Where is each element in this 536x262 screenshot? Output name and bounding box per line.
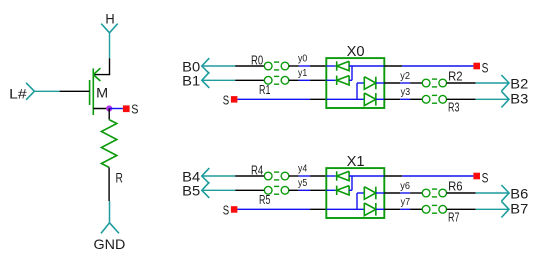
X1 diode 2 bbox=[337, 186, 349, 195]
subcircuit X1 box bbox=[326, 168, 384, 218]
node H label bbox=[105, 11, 114, 27]
wire S to resistor bbox=[108, 109, 110, 120]
net y2 segment bbox=[384, 71, 410, 83]
label R3 bbox=[448, 100, 460, 114]
X1 diode 3 bbox=[364, 187, 376, 200]
port B1 bbox=[182, 72, 209, 88]
label R bbox=[116, 170, 123, 186]
svg-text:X0: X0 bbox=[347, 44, 365, 60]
wire B0 to R0 bbox=[202, 65, 265, 67]
svg-text:R4: R4 bbox=[251, 164, 263, 178]
subcircuit X0 box bbox=[326, 58, 384, 108]
svg-text:R3: R3 bbox=[448, 100, 460, 114]
X0 inner wire row y1 bbox=[326, 79, 336, 81]
wire source bbox=[93, 108, 109, 110]
svg-text:H: H bbox=[105, 11, 114, 27]
svg-text:y4: y4 bbox=[298, 164, 308, 175]
wire net y5 to X pin bbox=[310, 189, 326, 191]
port B2 bbox=[501, 75, 528, 92]
svg-text:S: S bbox=[131, 102, 138, 117]
label R2 bbox=[448, 69, 463, 83]
net y3 segment bbox=[384, 87, 410, 99]
wire gate bbox=[34, 90, 89, 92]
net y7 segment bbox=[384, 197, 410, 209]
label R7 bbox=[448, 210, 460, 224]
wire X0 to pin S right bbox=[384, 65, 473, 67]
svg-text:B5: B5 bbox=[182, 182, 200, 198]
resistor R6 bbox=[422, 189, 446, 197]
port L# bbox=[9, 83, 34, 102]
wire R0 to net y0 bbox=[289, 65, 299, 67]
X1 inner wire row y4 bbox=[326, 175, 336, 177]
svg-text:y6: y6 bbox=[400, 181, 410, 192]
svg-text:R2: R2 bbox=[448, 69, 463, 83]
resistor R4 bbox=[264, 172, 289, 180]
wire net y7 to R7 bbox=[410, 208, 422, 210]
wire node S bbox=[109, 108, 123, 110]
svg-text:B1: B1 bbox=[182, 72, 200, 88]
net y1 segment bbox=[298, 68, 310, 81]
svg-text:B3: B3 bbox=[510, 91, 528, 107]
label X1 bbox=[347, 154, 365, 170]
svg-text:R0: R0 bbox=[251, 54, 263, 68]
wire B5 to R5 bbox=[202, 189, 265, 191]
junction node S bbox=[107, 106, 112, 111]
port B6 bbox=[501, 185, 528, 202]
X0 inner wire diode 4 to y3 bbox=[376, 98, 384, 100]
svg-text:R: R bbox=[116, 170, 123, 186]
X0 diode 1 bbox=[337, 61, 349, 70]
svg-text:y1: y1 bbox=[298, 68, 308, 79]
X0 diode 2 bbox=[337, 76, 349, 85]
svg-text:R1: R1 bbox=[259, 83, 270, 97]
X1 inner wire row y5 bbox=[326, 189, 336, 191]
resistor R1 bbox=[264, 76, 289, 84]
svg-text:S: S bbox=[482, 59, 489, 75]
label M bbox=[96, 84, 108, 100]
wire B4 to R4 bbox=[202, 175, 265, 177]
wire R2 to B2 bbox=[447, 82, 509, 84]
label R0 bbox=[251, 54, 263, 68]
svg-text:S: S bbox=[223, 93, 230, 108]
X1 inner wire diode bases to S out bbox=[349, 176, 384, 190]
pin S left of X1 bbox=[223, 203, 238, 218]
wire H to drain bbox=[93, 33, 110, 75]
resistor R2 bbox=[422, 79, 446, 87]
label R6 bbox=[448, 179, 463, 193]
resistor R bbox=[101, 120, 116, 168]
X0 inner wire S row bbox=[326, 83, 364, 99]
port B0 bbox=[182, 58, 209, 74]
svg-text:L#: L# bbox=[9, 86, 27, 102]
X0 inner wire diode 3 to y2 bbox=[376, 82, 384, 84]
pin S left circuit bbox=[123, 102, 139, 117]
port B4 bbox=[182, 168, 209, 184]
svg-text:R7: R7 bbox=[448, 210, 460, 224]
wire R1 to net y1 bbox=[289, 79, 299, 81]
port B3 bbox=[501, 91, 528, 108]
wire net y0 to X pin bbox=[310, 65, 326, 67]
wire R6 to B6 bbox=[447, 192, 509, 194]
svg-text:y0: y0 bbox=[298, 54, 308, 65]
net y6 segment bbox=[384, 181, 410, 193]
resistor R0 bbox=[264, 62, 289, 70]
svg-text:S: S bbox=[223, 203, 230, 218]
port B5 bbox=[182, 182, 209, 198]
pin S right of X1 bbox=[473, 169, 488, 185]
label X0 bbox=[347, 44, 365, 60]
wire net y6 to R6 bbox=[410, 192, 422, 194]
svg-text:B6: B6 bbox=[510, 186, 528, 202]
wire R7 to B7 bbox=[447, 208, 509, 210]
wire net y4 to X pin bbox=[310, 175, 326, 177]
svg-text:R5: R5 bbox=[259, 193, 270, 207]
resistor R7 bbox=[422, 205, 446, 213]
svg-text:y3: y3 bbox=[401, 87, 411, 98]
wire net y2 to R2 bbox=[410, 82, 422, 84]
transistor M bbox=[90, 68, 101, 115]
svg-text:B7: B7 bbox=[510, 201, 528, 217]
svg-text:y5: y5 bbox=[298, 178, 308, 189]
svg-text:X1: X1 bbox=[347, 154, 365, 170]
supply symbol H bbox=[101, 24, 118, 33]
wire resistor to ground bbox=[108, 167, 110, 201]
wire net y1 to X pin bbox=[310, 79, 326, 81]
svg-text:y2: y2 bbox=[400, 71, 410, 82]
ground GND bbox=[94, 201, 126, 252]
X0 diode 3 bbox=[364, 77, 376, 90]
X1 diode 1 bbox=[337, 171, 349, 180]
label R1 bbox=[259, 83, 270, 97]
net y5 segment bbox=[298, 178, 310, 191]
resistor R5 bbox=[264, 186, 289, 194]
svg-text:y7: y7 bbox=[401, 197, 411, 208]
X0 inner wire row y0 bbox=[326, 65, 336, 67]
wire net S into X0 bbox=[238, 98, 327, 100]
svg-text:B2: B2 bbox=[510, 76, 528, 92]
resistor R3 bbox=[422, 95, 446, 103]
X1 inner wire S row bbox=[326, 193, 364, 209]
wire X1 to pin S right bbox=[384, 175, 473, 177]
label R5 bbox=[259, 193, 270, 207]
wire R4 to net y4 bbox=[289, 175, 299, 177]
svg-text:S: S bbox=[482, 169, 489, 185]
X1 diode 4 bbox=[364, 203, 376, 216]
label R4 bbox=[251, 164, 263, 178]
pin S left of X0 bbox=[223, 93, 238, 108]
net y0 segment bbox=[298, 54, 310, 66]
svg-text:R6: R6 bbox=[448, 179, 463, 193]
svg-text:GND: GND bbox=[94, 236, 126, 252]
wire B1 to R1 bbox=[202, 79, 265, 81]
port B7 bbox=[501, 201, 528, 218]
X1 inner wire diode 4 to y7 bbox=[376, 208, 384, 210]
svg-text:M: M bbox=[96, 84, 108, 100]
net y4 segment bbox=[298, 164, 310, 176]
X0 diode 4 bbox=[364, 93, 376, 106]
X0 inner wire diode bases to S out bbox=[349, 66, 384, 80]
wire net S into X1 bbox=[238, 208, 327, 210]
pin S right of X0 bbox=[473, 59, 488, 75]
wire R3 to B3 bbox=[447, 98, 509, 100]
wire net y3 to R3 bbox=[410, 98, 422, 100]
wire R5 to net y5 bbox=[289, 189, 299, 191]
X1 inner wire diode 3 to y6 bbox=[376, 192, 384, 194]
